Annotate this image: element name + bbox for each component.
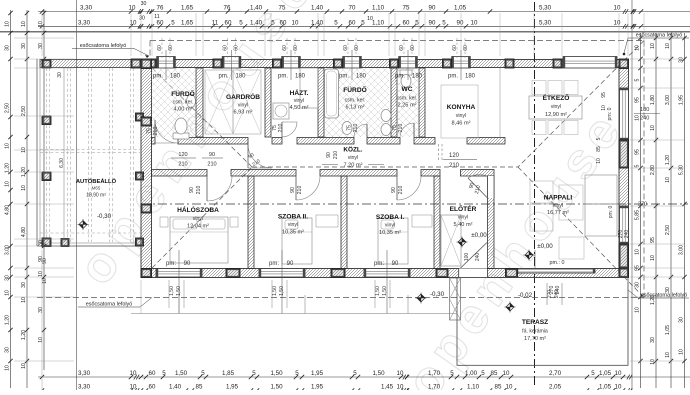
szoba2 closet xyxy=(316,215,338,227)
dining chairs xyxy=(532,81,546,95)
svg-text:5: 5 xyxy=(201,370,205,377)
svg-text:pm:: pm: xyxy=(374,261,384,267)
partition HALO-SZOBA2 xyxy=(248,176,254,269)
svg-text:5,30: 5,30 xyxy=(679,165,685,175)
FURDO2 tiled floor xyxy=(324,68,389,137)
svg-text:30: 30 xyxy=(679,317,685,323)
door arc HAZT xyxy=(282,122,297,137)
svg-text:±0,00: ±0,00 xyxy=(471,232,487,239)
svg-text:1,70: 1,70 xyxy=(428,384,441,391)
svg-text:10: 10 xyxy=(42,278,48,284)
svg-text:60: 60 xyxy=(410,45,416,51)
svg-text:5,30: 5,30 xyxy=(539,19,552,26)
svg-text:1,40: 1,40 xyxy=(169,384,182,391)
svg-text:pm: 0: pm: 0 xyxy=(607,107,613,120)
partition FURDO-GARDROB xyxy=(196,68,203,137)
svg-text:3,30: 3,30 xyxy=(80,5,93,12)
svg-text:pm: 0: pm: 0 xyxy=(608,206,614,219)
furdo2 double sink xyxy=(381,110,391,122)
door arc WC xyxy=(400,123,414,137)
svg-text:1,95: 1,95 xyxy=(311,370,324,377)
svg-text:1,50: 1,50 xyxy=(279,286,285,296)
svg-text:1,05: 1,05 xyxy=(454,5,467,12)
svg-text:5: 5 xyxy=(635,164,641,167)
svg-text:30: 30 xyxy=(21,43,27,49)
svg-text:60: 60 xyxy=(349,19,356,26)
right dimension column 1 xyxy=(640,33,642,388)
svg-text:10: 10 xyxy=(367,16,373,22)
svg-text:10: 10 xyxy=(635,307,641,313)
svg-text:10: 10 xyxy=(21,21,27,27)
svg-text:180: 180 xyxy=(170,74,181,80)
rear paving line xyxy=(131,313,457,315)
svg-text:60: 60 xyxy=(280,19,287,26)
eave 60 offset labels xyxy=(161,38,163,58)
svg-text:pm.: pm. xyxy=(278,74,288,80)
level marker +-0,00 nappali xyxy=(524,250,535,261)
wall pier top xyxy=(147,59,156,68)
svg-text:10: 10 xyxy=(601,105,607,111)
window pm90 xyxy=(364,269,410,278)
FURDO tiled floor xyxy=(152,68,197,137)
svg-text:4,00 m²: 4,00 m² xyxy=(174,107,193,113)
house right wall xyxy=(619,60,629,278)
svg-text:10: 10 xyxy=(21,297,27,303)
svg-text:60: 60 xyxy=(452,45,458,51)
corner pier SW xyxy=(141,269,152,278)
svg-text:60: 60 xyxy=(282,45,288,51)
svg-text:pm:: pm: xyxy=(269,261,279,267)
svg-text:pm.: 0: pm.: 0 xyxy=(550,260,565,266)
svg-text:210: 210 xyxy=(178,162,187,168)
svg-text:4,80: 4,80 xyxy=(21,227,27,237)
svg-text:10: 10 xyxy=(635,115,641,121)
svg-text:ÉTKEZŐ: ÉTKEZŐ xyxy=(543,93,570,102)
extension lines left xyxy=(14,37,74,39)
svg-text:180: 180 xyxy=(235,74,246,80)
right dimension column 4 xyxy=(684,33,686,388)
svg-text:TERASZ: TERASZ xyxy=(522,319,548,326)
svg-text:10: 10 xyxy=(665,43,671,49)
svg-text:4,80: 4,80 xyxy=(5,205,11,215)
svg-text:180: 180 xyxy=(640,107,649,113)
svg-text:95: 95 xyxy=(635,149,641,155)
svg-text:60: 60 xyxy=(157,19,164,26)
door arc SZOBA2 xyxy=(296,176,320,200)
wall pier top xyxy=(213,59,222,68)
furdo toilet xyxy=(173,133,189,139)
svg-text:240: 240 xyxy=(624,230,630,239)
svg-text:ELŐTÉR: ELŐTÉR xyxy=(450,204,477,213)
wall pier top xyxy=(334,59,343,68)
halo nightstands xyxy=(160,217,168,227)
window pm180 xyxy=(399,57,418,69)
entry door leaf xyxy=(460,243,487,269)
svg-text:vinyl: vinyl xyxy=(385,223,395,229)
svg-text:5: 5 xyxy=(442,19,446,26)
svg-text:10: 10 xyxy=(650,359,656,365)
svg-text:10: 10 xyxy=(38,337,44,343)
svg-text:95: 95 xyxy=(635,97,641,103)
window pm90 xyxy=(259,269,305,278)
terrace entry steps xyxy=(450,278,461,320)
svg-text:1,10: 1,10 xyxy=(372,19,385,26)
svg-text:WC: WC xyxy=(402,86,413,93)
svg-text:10: 10 xyxy=(665,352,671,358)
svg-text:M65: M65 xyxy=(92,186,101,191)
svg-text:vinyl: vinyl xyxy=(458,215,468,221)
svg-text:60: 60 xyxy=(343,45,349,51)
svg-text:120: 120 xyxy=(449,153,460,159)
level marker -0,30 entry xyxy=(416,293,427,304)
svg-text:1,05: 1,05 xyxy=(599,370,612,377)
svg-text:1,40: 1,40 xyxy=(250,19,263,26)
house top wall xyxy=(131,60,629,68)
svg-text:1,50: 1,50 xyxy=(272,286,278,296)
svg-text:1,40: 1,40 xyxy=(311,5,324,12)
wc toilet xyxy=(400,70,412,75)
svg-text:10,35 m²: 10,35 m² xyxy=(282,230,304,236)
svg-text:240: 240 xyxy=(475,253,481,262)
svg-text:2,05: 2,05 xyxy=(549,384,562,391)
extension lines bottom xyxy=(41,250,43,390)
svg-text:75: 75 xyxy=(279,5,286,12)
svg-text:2,80: 2,80 xyxy=(650,165,656,175)
svg-text:180: 180 xyxy=(412,74,423,80)
svg-text:5: 5 xyxy=(635,78,641,81)
svg-text:5: 5 xyxy=(239,19,243,26)
svg-text:10: 10 xyxy=(5,365,11,371)
nappali coffee table xyxy=(559,185,583,220)
svg-text:30: 30 xyxy=(57,72,63,78)
svg-text:10: 10 xyxy=(614,5,621,12)
bottom dimension row 2 xyxy=(38,390,690,392)
svg-text:10: 10 xyxy=(615,384,622,391)
carport AUTOBEALLO outline xyxy=(36,59,38,246)
svg-text:vinyl: vinyl xyxy=(553,203,563,209)
svg-text:esőcsatorna lefolyó: esőcsatorna lefolyó xyxy=(86,302,132,308)
door arc FURDO xyxy=(155,120,178,143)
svg-text:210: 210 xyxy=(398,186,404,195)
nappali armchairs xyxy=(530,181,553,203)
level marker -0,30 carport xyxy=(78,219,89,230)
svg-text:90: 90 xyxy=(429,19,436,26)
partition WC-KONYHA xyxy=(419,68,425,137)
svg-text:30: 30 xyxy=(650,337,656,343)
entry door opening xyxy=(459,269,488,278)
svg-text:90: 90 xyxy=(392,261,399,267)
svg-text:1,20: 1,20 xyxy=(650,295,656,305)
partition HAZT-FURDO2 xyxy=(318,68,324,137)
carport posts right xyxy=(136,113,144,121)
svg-text:FÜRDŐ: FÜRDŐ xyxy=(171,89,194,98)
wall pier top xyxy=(505,59,514,68)
svg-text:5: 5 xyxy=(271,19,275,26)
svg-text:SZOBA I.: SZOBA I. xyxy=(376,214,404,221)
window pm180 xyxy=(157,57,176,69)
bottom dimension row 1 xyxy=(38,376,690,378)
svg-text:240: 240 xyxy=(640,116,649,122)
svg-text:pm.: pm. xyxy=(448,74,458,80)
svg-text:KONYHA: KONYHA xyxy=(447,104,476,111)
svg-text:1,20: 1,20 xyxy=(5,315,11,325)
wall pier top xyxy=(273,59,282,68)
svg-text:85: 85 xyxy=(196,384,203,391)
eloter closet xyxy=(441,215,461,266)
carport rafters dashed xyxy=(46,68,48,242)
svg-text:5,30: 5,30 xyxy=(539,5,552,12)
svg-text:5: 5 xyxy=(353,370,357,377)
svg-text:210: 210 xyxy=(207,162,216,168)
svg-text:SZOBA II.: SZOBA II. xyxy=(278,214,308,221)
svg-text:11: 11 xyxy=(212,19,219,26)
site boundary line top xyxy=(0,31,690,33)
nappali sofa L right wall xyxy=(585,175,617,204)
svg-text:10: 10 xyxy=(665,177,671,183)
svg-text:vinyl: vinyl xyxy=(456,113,466,119)
svg-text:95: 95 xyxy=(650,237,656,243)
window pm180 xyxy=(222,57,241,69)
svg-text:60: 60 xyxy=(157,45,163,51)
svg-text:90: 90 xyxy=(290,187,296,193)
svg-text:esőcsatorna lefolyó: esőcsatorna lefolyó xyxy=(641,293,687,299)
svg-text:5: 5 xyxy=(361,19,365,26)
svg-text:pm.: pm. xyxy=(153,74,163,80)
roof eave outline dashed xyxy=(150,40,644,42)
site boundary line right xyxy=(631,0,633,390)
left wall piers xyxy=(141,117,152,126)
svg-text:10: 10 xyxy=(471,19,478,26)
kitchen-dining boundary thin xyxy=(499,68,501,137)
svg-text:3,30: 3,30 xyxy=(78,370,91,377)
svg-text:60: 60 xyxy=(399,45,405,51)
svg-text:210: 210 xyxy=(196,186,202,195)
svg-text:60: 60 xyxy=(225,19,232,26)
svg-text:1,05: 1,05 xyxy=(665,325,671,335)
svg-text:10: 10 xyxy=(503,370,510,377)
carport top beam xyxy=(40,60,132,68)
svg-text:1,50: 1,50 xyxy=(176,286,182,296)
svg-text:10: 10 xyxy=(650,43,656,49)
svg-text:30: 30 xyxy=(635,282,641,288)
svg-text:180: 180 xyxy=(356,74,367,80)
svg-text:12,04 m²: 12,04 m² xyxy=(187,224,209,230)
svg-text:210: 210 xyxy=(297,186,303,195)
svg-text:3,30: 3,30 xyxy=(78,384,91,391)
door jamb dashes KONYHA xyxy=(438,144,440,160)
svg-text:GARDRÓB: GARDRÓB xyxy=(226,92,260,101)
svg-text:210: 210 xyxy=(278,124,284,133)
svg-text:1,50: 1,50 xyxy=(169,286,175,296)
svg-text:1,10: 1,10 xyxy=(372,5,385,12)
corner pier NE xyxy=(619,59,629,69)
svg-text:3,00: 3,00 xyxy=(679,245,685,255)
left dimension column 3 xyxy=(43,10,45,370)
furdo2 toilet xyxy=(342,122,352,135)
svg-text:60: 60 xyxy=(354,45,360,51)
svg-text:12,90 m²: 12,90 m² xyxy=(545,112,567,118)
svg-text:-0,30: -0,30 xyxy=(430,291,445,298)
svg-text:5: 5 xyxy=(162,370,166,377)
bottom wall piers xyxy=(141,269,149,278)
window axis labels pm 90 bottom xyxy=(178,250,180,314)
roof ridge dashed xyxy=(252,166,518,168)
svg-text:85: 85 xyxy=(491,370,498,377)
svg-text:2,50: 2,50 xyxy=(5,103,11,113)
svg-text:85: 85 xyxy=(495,384,502,391)
svg-text:1,50: 1,50 xyxy=(175,370,188,377)
partition GARDROB-HAZT xyxy=(265,68,271,137)
svg-text:75: 75 xyxy=(403,5,410,12)
svg-text:30: 30 xyxy=(38,240,44,246)
svg-text:NAPPALI: NAPPALI xyxy=(544,195,573,202)
svg-text:95: 95 xyxy=(601,92,607,98)
corner pier NW xyxy=(141,59,152,69)
svg-text:10: 10 xyxy=(38,271,44,277)
svg-text:10: 10 xyxy=(21,363,27,369)
svg-text:1,05: 1,05 xyxy=(599,384,612,391)
svg-text:esőcsatorna lefolyó: esőcsatorna lefolyó xyxy=(80,43,126,49)
svg-text:60: 60 xyxy=(403,19,410,26)
section line vertical xyxy=(534,2,536,388)
svg-text:AUTÓBEÁLLÓ: AUTÓBEÁLLÓ xyxy=(76,177,117,185)
svg-text:90: 90 xyxy=(189,187,195,193)
level marker +-0,00 eloter xyxy=(457,237,468,248)
door arc SZOBA1 xyxy=(397,176,421,200)
svg-text:1,00: 1,00 xyxy=(465,370,478,377)
etkezo wide window xyxy=(563,57,617,69)
partition FURDO2-WC xyxy=(391,68,397,137)
halo bed xyxy=(170,217,228,263)
svg-text:HÁLÓSZOBA: HÁLÓSZOBA xyxy=(177,205,219,214)
svg-text:esőcsatorna lefolyó: esőcsatorna lefolyó xyxy=(636,33,682,39)
svg-text:90: 90 xyxy=(209,152,215,158)
svg-text:pm.: pm. xyxy=(339,74,349,80)
svg-text:1,50: 1,50 xyxy=(382,286,388,296)
svg-text:90: 90 xyxy=(287,261,294,267)
svg-text:4,50 m²: 4,50 m² xyxy=(290,105,309,111)
svg-text:vinyl: vinyl xyxy=(348,155,358,161)
svg-text:210: 210 xyxy=(353,124,359,133)
hazt shelf xyxy=(300,68,318,108)
svg-text:7,20 m²: 7,20 m² xyxy=(344,163,363,169)
svg-text:5: 5 xyxy=(450,370,454,377)
window pm90 xyxy=(156,269,202,278)
szoba1 closet xyxy=(412,215,432,227)
svg-text:17,70 m²: 17,70 m² xyxy=(524,336,546,342)
svg-text:vinyl: vinyl xyxy=(288,222,298,228)
svg-text:210: 210 xyxy=(449,163,460,169)
wall pier top xyxy=(443,59,452,68)
right wall pier xyxy=(619,140,629,168)
corner pier SE xyxy=(619,268,629,278)
house left wall xyxy=(141,60,152,278)
svg-text:60: 60 xyxy=(293,45,299,51)
svg-text:6,13 m²: 6,13 m² xyxy=(346,105,365,111)
svg-text:3,00: 3,00 xyxy=(5,245,11,255)
svg-text:30: 30 xyxy=(38,307,44,313)
roof hip dashed NW xyxy=(152,68,252,167)
svg-text:60: 60 xyxy=(149,370,156,377)
svg-text:HÁZT.: HÁZT. xyxy=(290,88,309,97)
svg-text:1,50: 1,50 xyxy=(270,370,283,377)
corridor north wall segments xyxy=(152,138,156,145)
partition ELOTER-NAPPALI xyxy=(488,176,495,269)
svg-text:10: 10 xyxy=(615,370,622,377)
svg-text:10: 10 xyxy=(21,185,27,191)
partition SZOBA1-ELOTER xyxy=(434,176,440,269)
WC tiled floor xyxy=(395,68,419,137)
svg-text:30: 30 xyxy=(38,43,44,49)
svg-text:1,40: 1,40 xyxy=(311,19,324,26)
svg-text:fá. kerámia: fá. kerámia xyxy=(522,329,548,335)
svg-text:90: 90 xyxy=(391,187,397,193)
svg-text:KÖZL.: KÖZL. xyxy=(343,145,362,154)
right wall window 180/240 xyxy=(620,88,629,140)
svg-text:30: 30 xyxy=(139,16,145,22)
svg-text:180: 180 xyxy=(465,74,476,80)
szoba2 bed xyxy=(282,218,312,264)
extension lines right xyxy=(630,37,684,39)
right dimension column 3 xyxy=(670,33,672,388)
svg-text:pm.: pm. xyxy=(218,74,228,80)
svg-text:vinyl: vinyl xyxy=(551,104,561,110)
nappali tv cabinet xyxy=(559,237,584,259)
furdo sink xyxy=(187,95,196,108)
svg-text:210: 210 xyxy=(153,127,159,136)
svg-text:pm:: pm: xyxy=(166,261,176,267)
left dimension column 2 xyxy=(26,10,28,388)
roof hip dashed SW xyxy=(152,167,252,268)
svg-text:10: 10 xyxy=(130,19,137,26)
svg-text:240: 240 xyxy=(554,290,560,299)
svg-text:30: 30 xyxy=(141,1,147,7)
szoba1 bed xyxy=(378,218,408,264)
carport purlin dashed xyxy=(40,149,140,151)
door arc GARDROB xyxy=(248,144,272,168)
svg-text:60: 60 xyxy=(463,45,469,51)
svg-text:10: 10 xyxy=(292,19,299,26)
svg-text:10: 10 xyxy=(5,21,11,27)
svg-text:vinyl: vinyl xyxy=(238,103,248,109)
extension lines top xyxy=(41,13,43,56)
wall pier top xyxy=(390,59,399,68)
svg-text:30: 30 xyxy=(679,57,685,63)
wall pier top xyxy=(553,59,562,68)
svg-text:180: 180 xyxy=(295,74,306,80)
svg-text:1,10: 1,10 xyxy=(467,384,480,391)
svg-text:1,20: 1,20 xyxy=(21,330,27,340)
svg-text:2,50: 2,50 xyxy=(665,225,671,235)
svg-text:vinyl: vinyl xyxy=(294,98,304,104)
svg-text:3,00: 3,00 xyxy=(665,95,671,105)
svg-text:90: 90 xyxy=(38,256,44,262)
window axis labels pm 180 xyxy=(165,50,167,80)
terrace sliding door xyxy=(516,269,595,274)
svg-text:1,40: 1,40 xyxy=(250,5,263,12)
svg-text:270: 270 xyxy=(547,290,553,299)
svg-text:1,50: 1,50 xyxy=(270,384,283,391)
svg-text:85: 85 xyxy=(596,146,602,152)
svg-text:10,35 m²: 10,35 m² xyxy=(379,230,401,236)
svg-text:1,45: 1,45 xyxy=(381,384,394,391)
furdo2 bathtub xyxy=(325,69,339,118)
house bottom wall xyxy=(141,269,629,278)
roof hip dashed NE xyxy=(518,41,644,168)
svg-text:csm. ker.: csm. ker. xyxy=(397,96,418,102)
svg-text:5: 5 xyxy=(334,19,338,26)
right dimension column 2 xyxy=(655,33,657,388)
